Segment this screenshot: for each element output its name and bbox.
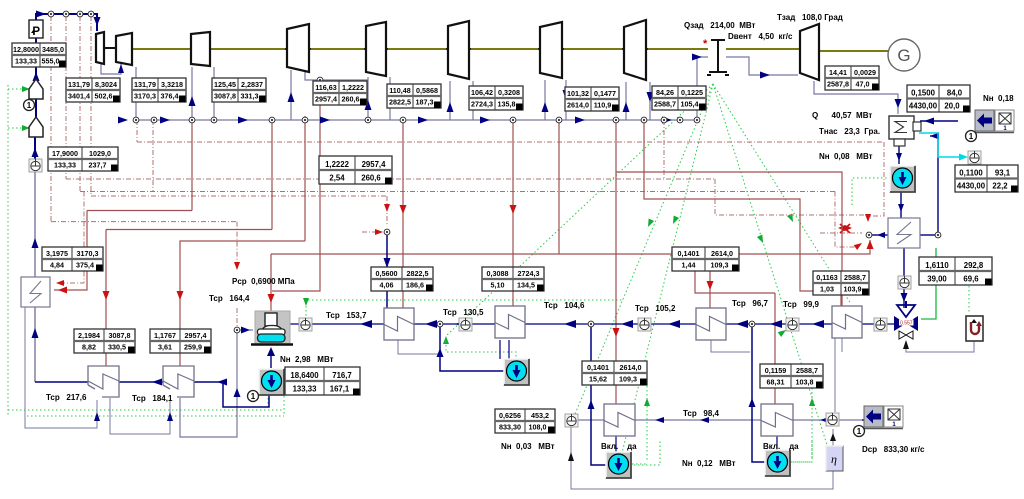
svg-text:3087,8: 3087,8: [109, 331, 131, 340]
drain pump LPH2: [504, 359, 529, 385]
svg-text:3170,3: 3170,3: [134, 92, 156, 101]
svg-text:69,6: 69,6: [963, 275, 979, 284]
regulator icon left: [29, 159, 42, 172]
svg-text:0,5600: 0,5600: [376, 269, 398, 278]
svg-text:2614,0: 2614,0: [711, 249, 733, 258]
svg-text:260,6: 260,6: [361, 174, 381, 183]
drain pump heater 6: [765, 450, 790, 476]
circle 1 circ water: [966, 131, 977, 142]
condenser: [889, 116, 914, 139]
svg-text:1: 1: [857, 427, 862, 436]
table makeup: [955, 165, 1018, 192]
deaerator: [255, 311, 290, 344]
svg-text:Nн 2,98 МВт: Nн 2,98 МВт: [280, 355, 334, 364]
svg-text:Тср 99,9: Тср 99,9: [783, 300, 820, 309]
lower heater 5: [604, 404, 635, 436]
svg-text:Тср 104,6: Тср 104,6: [544, 301, 585, 310]
table stage5: [387, 84, 441, 108]
svg-text:17,9000: 17,9000: [52, 149, 78, 158]
svg-text:84,26: 84,26: [656, 88, 674, 97]
table stage7: [565, 87, 619, 111]
svg-text:133,33: 133,33: [54, 161, 76, 170]
svg-text:Тср 184,1: Тср 184,1: [132, 394, 173, 403]
efficiency block eta: [826, 446, 843, 471]
vent element with asterisk: [707, 40, 729, 75]
table boiler outlet: [12, 43, 66, 67]
svg-text:Тср 217,6: Тср 217,6: [46, 393, 87, 402]
turbine stage 2: [116, 33, 132, 65]
svg-text:2,2837: 2,2837: [241, 80, 263, 89]
svg-text:2957,4: 2957,4: [362, 160, 387, 169]
svg-text:Dвент 4,50 кг/с: Dвент 4,50 кг/с: [728, 32, 793, 41]
table LPH1 steam: [371, 267, 433, 291]
svg-text:Nн 0,08 МВт: Nн 0,08 МВт: [819, 152, 873, 161]
svg-text:2957,4: 2957,4: [315, 95, 337, 104]
svg-text:3485,0: 3485,0: [42, 45, 64, 54]
makeup regulator cyan: [968, 151, 981, 164]
makeup water inlet icon: [864, 406, 883, 427]
svg-text:116,63: 116,63: [315, 83, 337, 92]
LPH heater 4: [832, 306, 862, 338]
svg-text:Nн 0,12 МВт: Nн 0,12 МВт: [682, 459, 736, 468]
svg-text:2587,8: 2587,8: [827, 80, 849, 89]
svg-text:110,48: 110,48: [389, 86, 411, 95]
svg-text:4,06: 4,06: [380, 281, 394, 290]
svg-text:0.557: 0.557: [900, 320, 913, 326]
svg-text:237,7: 237,7: [89, 161, 107, 170]
boiler element 1: [29, 79, 43, 99]
svg-text:108,0: 108,0: [529, 423, 547, 432]
junction dots: [48, 11, 54, 17]
svg-text:375,4: 375,4: [76, 261, 94, 270]
table LPH2 steam: [482, 267, 544, 291]
svg-text:0,3088: 0,3088: [487, 269, 509, 278]
turbine stage 8: [624, 20, 646, 80]
svg-text:G: G: [897, 46, 910, 65]
gland steam cooler: [888, 218, 920, 248]
turbine shaft: [104, 47, 116, 49]
HPH heater 2: [163, 366, 194, 397]
table heatload: [919, 257, 992, 285]
svg-text:5,10: 5,10: [491, 281, 505, 290]
svg-text:20,0: 20,0: [944, 102, 960, 111]
regulator below cooler: [898, 276, 911, 289]
svg-text:3170,3: 3170,3: [77, 249, 99, 258]
svg-text:3,3218: 3,3218: [161, 80, 183, 89]
regulator LPH3: [786, 318, 799, 331]
table LPH3 steam: [672, 247, 739, 271]
regulator lower row right: [826, 413, 839, 426]
table reheat: [319, 156, 392, 184]
svg-text:Тзад 108,0 Град: Тзад 108,0 Град: [777, 13, 843, 22]
svg-text:3087,8: 3087,8: [214, 92, 236, 101]
svg-text:260,6: 260,6: [342, 95, 360, 104]
svg-text:1,03: 1,03: [820, 285, 834, 294]
condensate pump: [890, 166, 915, 192]
drain pump heater 5: [606, 452, 631, 478]
svg-text:502,6: 502,6: [95, 92, 113, 101]
svg-text:0,5868: 0,5868: [416, 86, 438, 95]
svg-text:2822,5: 2822,5: [407, 269, 429, 278]
svg-text:103,8: 103,8: [796, 378, 814, 387]
svg-text:2614,0: 2614,0: [567, 101, 589, 110]
regulator before deaerator: [299, 318, 312, 331]
svg-text:Тср 164,4: Тср 164,4: [209, 294, 250, 303]
table LPH4 steam: [813, 271, 869, 295]
svg-text:331,3: 331,3: [241, 92, 259, 101]
main condensate & feedwater lines (navy): [287, 323, 894, 325]
svg-text:453,2: 453,2: [531, 411, 549, 420]
circle 1 makeup: [854, 426, 865, 437]
table stage2: [132, 78, 186, 102]
svg-text:109,3: 109,3: [619, 375, 637, 384]
table stage8: [652, 86, 706, 110]
svg-text:*: *: [703, 38, 708, 50]
svg-text:833,30: 833,30: [499, 423, 521, 432]
svg-text:Тср 130,5: Тср 130,5: [443, 308, 484, 317]
svg-text:Тср 98,4: Тср 98,4: [683, 409, 720, 418]
generator G: [888, 39, 920, 71]
svg-text:110,9: 110,9: [594, 101, 612, 110]
svg-text:Nн 0,03 МВт: Nн 0,03 МВт: [501, 442, 555, 451]
svg-text:2588,7: 2588,7: [654, 100, 676, 109]
turbine stage 7: [540, 22, 562, 78]
svg-text:Тср 96,7: Тср 96,7: [732, 299, 769, 308]
svg-text:Тнас 23,3 Гра.: Тнас 23,3 Гра.: [819, 127, 880, 136]
regulator lower row left: [565, 414, 578, 427]
svg-text:0,1225: 0,1225: [681, 88, 703, 97]
svg-text:105,4: 105,4: [681, 100, 699, 109]
svg-text:0,1100: 0,1100: [959, 169, 983, 178]
svg-text:2614,0: 2614,0: [620, 363, 642, 372]
svg-text:2,1984: 2,1984: [78, 331, 100, 340]
regulator LPH1: [459, 318, 472, 331]
svg-text:39,00: 39,00: [927, 275, 947, 284]
svg-text:134,5: 134,5: [517, 281, 535, 290]
condensate recirculation icon (U): [966, 316, 983, 341]
svg-text:186,6: 186,6: [406, 281, 424, 290]
svg-text:1,44: 1,44: [682, 261, 696, 270]
circulating water inlet icon: [975, 110, 994, 131]
svg-text:8,3024: 8,3024: [95, 80, 117, 89]
turbine stage 3: [191, 32, 210, 66]
svg-text:133,33: 133,33: [293, 385, 318, 394]
svg-text:4430,00: 4430,00: [957, 182, 986, 191]
svg-text:2588,7: 2588,7: [844, 273, 866, 282]
regulator LPH2: [638, 318, 651, 331]
table heater5 drain: [582, 361, 647, 385]
circle 1 left: [24, 100, 35, 111]
table stage1: [66, 78, 120, 102]
table HPH2: [150, 329, 211, 353]
svg-text:47,0: 47,0: [856, 80, 870, 89]
control valve 0.557: [905, 301, 907, 308]
cyan makeup line: [919, 133, 964, 157]
svg-text:3401,4: 3401,4: [68, 92, 90, 101]
lower heater 6: [761, 404, 793, 436]
svg-text:1: 1: [251, 392, 256, 401]
svg-text:68,31: 68,31: [767, 378, 785, 387]
svg-text:0,6256: 0,6256: [499, 411, 521, 420]
table heater6 drain: [760, 364, 823, 388]
svg-text:Qзад 214,00 МВт: Qзад 214,00 МВт: [684, 21, 756, 30]
LPH heater 1: [384, 308, 414, 340]
svg-text:0,1159: 0,1159: [765, 366, 787, 375]
svg-text:15,62: 15,62: [589, 375, 607, 384]
LP turbine stage: [800, 24, 819, 80]
svg-text:101,32: 101,32: [567, 89, 589, 98]
svg-text:1,2222: 1,2222: [342, 83, 364, 92]
turbine stage 6: [448, 21, 469, 79]
boiler element 2: [29, 117, 43, 137]
svg-text:292,8: 292,8: [964, 261, 984, 270]
svg-text:Dcp 833,30 кг/с: Dcp 833,30 кг/с: [862, 445, 925, 454]
svg-text:4,84: 4,84: [50, 261, 64, 270]
svg-text:131,79: 131,79: [134, 80, 156, 89]
LPH heater 3: [696, 308, 726, 340]
svg-text:3,1975: 3,1975: [46, 249, 68, 258]
green line to valve: [921, 248, 936, 319]
svg-text:376,4: 376,4: [161, 92, 179, 101]
table stage4: [313, 81, 367, 105]
table stage6: [469, 86, 523, 110]
svg-text:103,9: 103,9: [844, 285, 862, 294]
green signal lines (dotted): [7, 85, 9, 416]
table deaerator pump: [285, 367, 360, 395]
left heat exchanger (boiler HX): [21, 277, 50, 307]
svg-text:4430,00: 4430,00: [909, 102, 938, 111]
svg-text:18,6400: 18,6400: [290, 371, 319, 380]
svg-text:131,79: 131,79: [68, 80, 90, 89]
table HPH1: [74, 329, 135, 353]
turbine steam bus & drains (gray): [101, 63, 121, 74]
table stage3: [212, 78, 266, 102]
svg-text:0,1401: 0,1401: [587, 363, 609, 372]
svg-text:1,6110: 1,6110: [925, 261, 949, 270]
svg-text:12,8000: 12,8000: [13, 45, 39, 54]
svg-text:125,45: 125,45: [214, 80, 236, 89]
svg-text:Тср 153,7: Тср 153,7: [326, 311, 367, 320]
svg-text:1,2222: 1,2222: [325, 160, 350, 169]
svg-text:Pcp 0,6900 МПа: Pcp 0,6900 МПа: [232, 277, 295, 286]
extraction steam lines (red): [87, 210, 192, 212]
svg-text:2822,5: 2822,5: [389, 98, 411, 107]
table LP exhaust: [825, 66, 879, 90]
table feed line: [48, 147, 118, 171]
svg-text:0,1401: 0,1401: [678, 249, 700, 258]
svg-text:Q 40,57 МВт: Q 40,57 МВт: [812, 111, 872, 120]
svg-text:3,61: 3,61: [158, 343, 172, 352]
dash-dot setpoint lines: [50, 16, 52, 222]
svg-text:330,5: 330,5: [108, 343, 126, 352]
svg-text:106,42: 106,42: [471, 88, 493, 97]
turbine stage 1 (HP control): [96, 32, 104, 64]
svg-text:0,3208: 0,3208: [498, 88, 520, 97]
circle 1 feed pump: [248, 391, 259, 402]
svg-text:14,41: 14,41: [829, 68, 847, 77]
pressure gauge P: [29, 20, 43, 38]
svg-text:0,1500: 0,1500: [911, 89, 936, 98]
svg-text:109,3: 109,3: [711, 261, 729, 270]
svg-text:Тср 105,2: Тср 105,2: [635, 304, 676, 313]
table circ water: [907, 85, 970, 112]
svg-text:2588,7: 2588,7: [796, 366, 818, 375]
svg-text:93,1: 93,1: [995, 169, 1011, 178]
svg-text:187,3: 187,3: [416, 98, 434, 107]
HPH heater 1: [88, 366, 119, 397]
svg-text:716,7: 716,7: [332, 371, 352, 380]
turbine stage 5: [366, 22, 386, 76]
table makeup line: [495, 409, 555, 433]
table boiler econ: [42, 247, 103, 271]
svg-text:1: 1: [27, 101, 32, 110]
svg-text:1,1767: 1,1767: [154, 331, 176, 340]
svg-text:0,0029: 0,0029: [854, 68, 876, 77]
svg-text:Вкл. да: Вкл. да: [763, 442, 799, 451]
svg-text:1: 1: [969, 132, 974, 141]
svg-text:84,0: 84,0: [947, 89, 963, 98]
svg-text:167,1: 167,1: [330, 385, 350, 394]
svg-text:2957,4: 2957,4: [185, 331, 207, 340]
svg-text:22,2: 22,2: [992, 182, 1008, 191]
svg-text:2724,3: 2724,3: [518, 269, 540, 278]
feed pump 1: [259, 369, 284, 395]
svg-text:Вкл. да: Вкл. да: [601, 442, 637, 451]
svg-text:2724,3: 2724,3: [471, 100, 493, 109]
turbine stage 4: [287, 24, 309, 72]
svg-text:555,0: 555,0: [42, 57, 60, 66]
svg-text:Nн 0,18: Nн 0,18: [983, 94, 1014, 103]
svg-text:1029,0: 1029,0: [89, 149, 111, 158]
LPH heater 2: [495, 306, 525, 338]
svg-text:8,82: 8,82: [82, 343, 96, 352]
svg-text:0,1163: 0,1163: [816, 273, 838, 282]
svg-text:133,33: 133,33: [15, 57, 37, 66]
svg-text:η: η: [831, 452, 837, 466]
regulator LPH4: [874, 318, 887, 331]
svg-text:2,54: 2,54: [329, 174, 345, 183]
svg-text:135,8: 135,8: [498, 100, 516, 109]
svg-text:259,9: 259,9: [184, 343, 202, 352]
svg-text:0,1477: 0,1477: [594, 89, 616, 98]
